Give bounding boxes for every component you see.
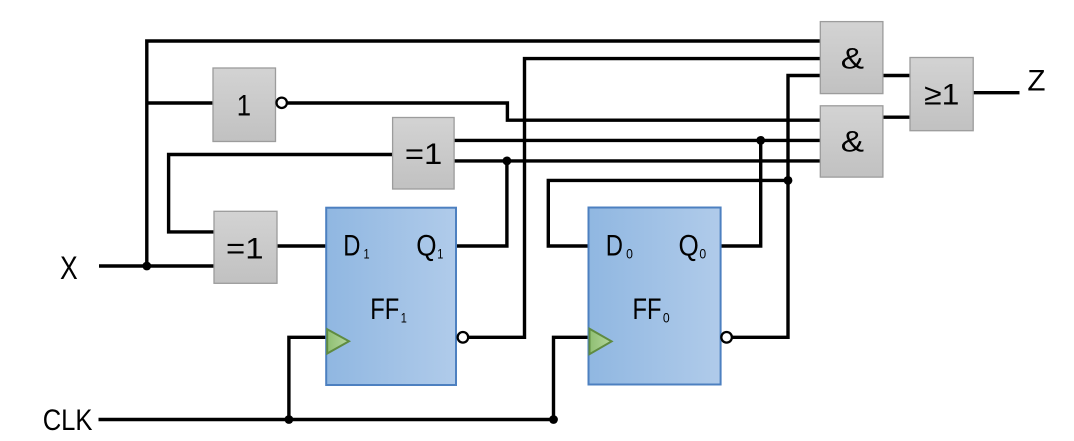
flip-flop FF0 clock edge triangle — [590, 329, 612, 355]
node X junction dot — [142, 262, 151, 271]
svg-text:Q: Q — [679, 229, 699, 262]
wire OR gate U6 output to Z — [973, 91, 1019, 94]
svg-text:&: & — [841, 126, 864, 159]
wire AND gate U5 output to OR gate U6 input 2 — [883, 115, 910, 118]
svg-text:Z: Z — [1027, 64, 1045, 97]
svg-text:X: X — [60, 250, 78, 286]
node Q0-bar junction dot — [784, 176, 793, 185]
wire XOR U2 output loop to XOR U3 input — [169, 155, 393, 232]
wire CLK riser to FF1 clock pin — [289, 337, 326, 419]
svg-text:≥1: ≥1 — [924, 79, 959, 112]
flip-flop FF1 clock edge triangle — [327, 329, 349, 353]
wire net Q1 horizontal run to AND gate U5 input 3 — [454, 159, 820, 162]
wire net Q0 horizontal run to AND gate U5 input 2 — [454, 139, 820, 142]
flip-flop FF0 body — [589, 208, 721, 385]
svg-text:D: D — [343, 229, 360, 262]
flip-flop FF1 inverted output bubble — [458, 332, 469, 343]
node CLK junction dot at FF1 branch — [285, 415, 294, 424]
wire inverter U1 output to AND gate U5 input 1 — [287, 103, 821, 120]
node Q0 junction dot — [756, 136, 765, 145]
inverter U1 output bubble — [277, 98, 287, 108]
OR gate U6 body (>=1) — [910, 58, 973, 131]
svg-text:FF: FF — [633, 293, 662, 326]
svg-text:0: 0 — [663, 309, 670, 325]
XOR gate U3 body (=1) — [214, 211, 277, 283]
svg-text:1: 1 — [437, 246, 443, 262]
flip-flop FF0 inverted output bubble — [721, 332, 732, 343]
svg-text:1: 1 — [237, 89, 251, 122]
svg-text:1: 1 — [401, 309, 407, 325]
wire CLK horizontal run — [99, 418, 554, 421]
wire inverter U1 input — [147, 101, 214, 104]
svg-text:D: D — [606, 229, 623, 262]
svg-text:&: & — [841, 42, 864, 75]
svg-text:FF: FF — [370, 293, 399, 326]
wire XOR U3 output to FF1 input D1 — [277, 244, 326, 247]
AND gate U4 body (&) — [820, 22, 883, 94]
wire X input lead — [99, 264, 214, 267]
svg-text:Q: Q — [416, 229, 436, 262]
wire net Q1-bar from FF1 inverted output to AND gate U4 input 2 — [468, 59, 820, 338]
node CLK junction dot at FF0 branch — [549, 415, 558, 424]
svg-text:1: 1 — [364, 246, 370, 262]
svg-text:=1: =1 — [405, 138, 442, 171]
wire X vertical riser and top run to AND gate U4 — [147, 41, 821, 266]
wire net Q1 from FF1 output — [456, 161, 507, 246]
wire AND gate U4 output to OR gate U6 input 1 — [883, 74, 910, 77]
wire net Q0-bar from FF0 inverted output to AND gate U4 input 3 — [732, 76, 821, 338]
flip-flop FF1 body — [326, 208, 456, 385]
XOR gate U2 body (=1) — [393, 118, 455, 190]
node Q1 junction dot — [503, 157, 512, 166]
svg-text:0: 0 — [626, 246, 633, 262]
inverter U1 body — [213, 68, 276, 142]
AND gate U5 body (&) — [820, 106, 883, 177]
svg-text:0: 0 — [699, 246, 706, 262]
wire net Q0-bar branch to FF0 input D0 — [548, 180, 788, 246]
svg-text:=1: =1 — [226, 232, 264, 265]
wire CLK riser to FF0 clock pin — [554, 337, 589, 419]
wire net Q0 from FF0 output — [721, 140, 761, 246]
svg-text:CLK: CLK — [43, 404, 93, 437]
